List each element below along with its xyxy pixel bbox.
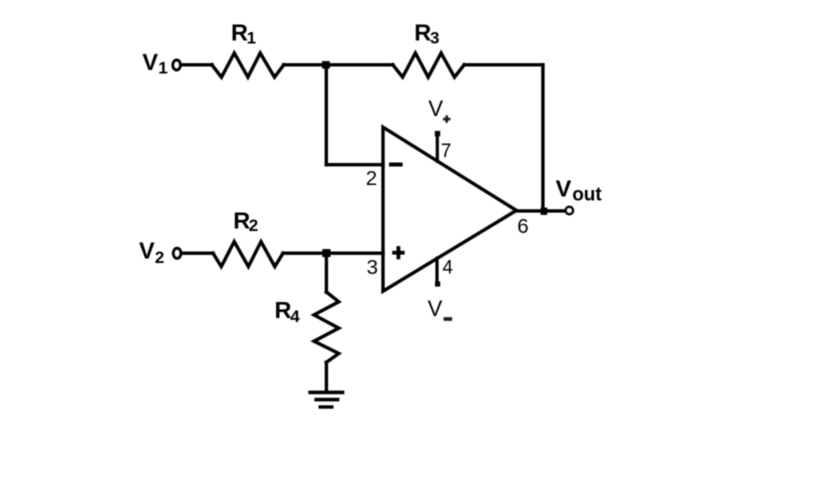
wire R3 to top-right corner	[464, 63, 543, 66]
wire node C down to R4	[325, 253, 328, 292]
svg-text:V: V	[556, 176, 572, 202]
label V2	[139, 238, 164, 267]
node C junction	[322, 249, 330, 257]
label V-	[428, 296, 453, 321]
svg-text:2: 2	[366, 167, 377, 190]
svg-text:R: R	[275, 297, 292, 323]
svg-text:V: V	[139, 238, 155, 264]
pin 2 label	[366, 167, 377, 190]
pin 3 label	[367, 256, 378, 279]
wire R1 to node A	[284, 63, 393, 66]
label V+	[428, 96, 450, 123]
ground	[308, 391, 344, 409]
terminal V2	[173, 248, 180, 258]
minus symbol	[389, 163, 403, 167]
op-amp U1	[383, 127, 516, 291]
svg-text:2: 2	[155, 248, 164, 267]
svg-text:2: 2	[249, 216, 258, 235]
plus symbol	[392, 246, 404, 259]
terminal Vout	[566, 207, 573, 214]
resistor R1	[212, 53, 284, 77]
wire R4 to ground	[325, 362, 328, 390]
pin 7 label	[441, 141, 452, 162]
resistor R2	[213, 242, 283, 267]
label R2	[233, 207, 258, 235]
svg-text:4: 4	[290, 307, 300, 326]
svg-text:R: R	[233, 207, 250, 233]
svg-text:V: V	[428, 96, 443, 121]
pin 4 label	[442, 258, 453, 279]
label R3	[414, 20, 439, 48]
svg-text:1: 1	[158, 59, 167, 78]
pin 4	[435, 258, 440, 286]
label Vout	[556, 176, 603, 206]
wire V1 to R1	[181, 63, 213, 66]
svg-text:R: R	[231, 20, 248, 46]
svg-text:out: out	[572, 185, 602, 206]
node A junction	[322, 61, 330, 69]
svg-text:V: V	[428, 296, 443, 321]
svg-text:1: 1	[247, 28, 256, 47]
wire feedback vertical	[541, 65, 544, 211]
pin 7	[435, 131, 440, 161]
label V1	[142, 49, 167, 78]
svg-text:7: 7	[441, 141, 452, 162]
svg-text:R: R	[414, 20, 431, 46]
svg-text:3: 3	[430, 28, 439, 47]
svg-text:3: 3	[367, 256, 378, 279]
svg-text:4: 4	[442, 258, 453, 279]
resistor R3	[393, 53, 464, 77]
wire R2 to node C	[283, 251, 326, 254]
wire V2 to R2	[182, 251, 213, 254]
wire node A down to pin 2	[325, 65, 328, 165]
svg-text:V: V	[142, 49, 158, 75]
terminal V1	[173, 60, 180, 70]
wire output	[516, 209, 565, 212]
svg-text:6: 6	[517, 215, 528, 238]
resistor R4	[314, 292, 339, 362]
label R4	[275, 297, 301, 326]
wire node C to noninverting input	[326, 251, 383, 254]
label R1	[231, 20, 256, 48]
pin 6 label	[517, 215, 528, 238]
wire to inverting input	[326, 163, 383, 166]
node B output junction	[541, 208, 548, 215]
